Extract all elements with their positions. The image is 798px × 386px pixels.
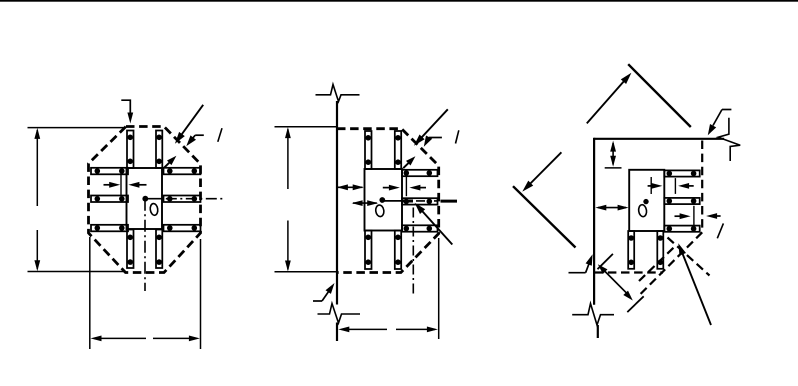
fig3 center point — [643, 199, 648, 204]
fig2 height dimension top extension line — [275, 126, 337, 128]
fig2 bent leader to wall base with arrow — [313, 300, 322, 302]
fig2 top-left vertical slot — [365, 131, 372, 169]
fig3 right-middle horizontal slot — [664, 198, 699, 204]
fig2 width dimension right extension line — [438, 238, 440, 339]
fig3 slot-edge extension line — [674, 178, 676, 194]
fig3 letter O anchor label — [638, 204, 647, 217]
fig1 bent leader with arrow to octagon edge — [195, 134, 204, 136]
fig1 right-middle horizontal slot — [164, 196, 201, 203]
fig3 arrow pointing at upper diagonal wall — [587, 78, 627, 123]
fig3 bent leader at wall end with arrow — [722, 109, 731, 111]
fig3 diagonal double arrow — [602, 268, 630, 296]
fig2 width dimension line left segment with left arrow — [342, 328, 388, 330]
fig1 bent leader to top edge with down arrow — [121, 100, 130, 116]
fig1 letter O anchor label — [150, 203, 159, 216]
fig3 arrow pointing at lower diagonal wall — [527, 152, 561, 186]
fig3 diagonal wall edge upper — [628, 64, 691, 127]
fig2 right-middle horizontal slot — [402, 198, 438, 204]
fig2 horizontal centerline — [382, 200, 402, 202]
fig2 horizontal centerline heavy end dash — [441, 200, 458, 203]
fig1 height dimension line upper segment with up arrow — [36, 130, 38, 206]
fig3 diagonal dimension tick near wall — [598, 254, 613, 269]
fig2 vertical centerline — [412, 208, 414, 294]
fig1 height dimension bottom extension line — [28, 271, 125, 273]
fig2 bottom-right vertical slot — [395, 231, 401, 270]
fig2 wall line lower part — [336, 323, 338, 342]
fig1 bottom-left vertical slot — [127, 230, 134, 269]
fig3 dashed diagonal through slot corner — [668, 238, 710, 276]
fig1 right-top horizontal slot — [164, 168, 201, 175]
fig1 height dimension top extension line — [28, 127, 125, 129]
fig3 inner tick line — [650, 177, 652, 194]
fig1 vertical centerline — [144, 199, 146, 291]
fig1 height dimension line lower segment with down arrow — [36, 230, 38, 269]
fig2 long diagonal leader to octagon corner edge — [419, 109, 448, 140]
fig3 horizontal dimension double arrow — [598, 207, 626, 209]
fig1 gap arrow pointing left — [135, 184, 147, 186]
fig3 left wall line upper part — [593, 138, 595, 305]
fig3 dashed diagonal below pattern — [639, 245, 676, 281]
fig1 slash callout mark — [218, 128, 222, 142]
fig1 horizontal centerline — [145, 198, 162, 200]
fig2 bent leader with arrow to octagon edge — [429, 137, 442, 139]
fig1 width dimension line left segment with left arrow — [94, 337, 146, 339]
fig3 diagonal dimension tick lower — [627, 296, 643, 312]
fig3 vertical dimension extension line — [605, 167, 622, 169]
page top border line — [0, 0, 798, 2]
fig3 outer thin line — [693, 206, 695, 226]
fig2 wall line upper part — [336, 101, 338, 305]
fig2 partial octagon dashed outline — [336, 129, 439, 273]
fig2 letter O anchor label — [375, 204, 385, 217]
fig3 bottom-right vertical slot — [657, 231, 663, 269]
fig1 slot-edge extension line — [120, 175, 122, 196]
fig2 right-bottom horizontal slot — [402, 225, 438, 231]
fig3 dashed outline bottom edge — [595, 271, 663, 273]
fig3 diagonal wall edge lower — [513, 186, 576, 247]
fig1 top-right vertical slot — [156, 131, 162, 169]
fig1 left-bottom horizontal slot — [91, 225, 128, 232]
fig3 left wall bottom break symbol — [572, 304, 614, 326]
fig2 width dimension line right segment with right arrow — [396, 328, 435, 330]
fig2 leader from lower right to middle slot — [418, 206, 453, 245]
fig2 slash callout mark — [456, 130, 459, 143]
fig3 central rectangle — [629, 170, 664, 231]
fig2 height dimension line upper segment with up arrow — [287, 129, 289, 189]
fig2 top-right vertical slot — [395, 131, 401, 169]
fig1 central rectangle — [127, 168, 163, 229]
fig2 bottom-left vertical slot — [365, 231, 372, 270]
fig1 bottom-right vertical slot — [156, 230, 162, 269]
fig1 long diagonal leader to octagon corner edge — [179, 105, 203, 138]
fig3 outer gap arrow pointing left — [713, 215, 721, 217]
fig1 center point — [142, 196, 148, 202]
fig3 right-top horizontal slot — [664, 170, 699, 176]
fig3 bent leader to wall base with arrow — [569, 272, 586, 274]
fig2 center point — [379, 197, 385, 203]
fig1 left-middle horizontal slot — [91, 196, 128, 203]
fig3 vertical dimension double arrow — [612, 143, 614, 165]
fig2 gap arrow pointing right — [383, 187, 394, 189]
fig3 dashed outline corner diagonal — [640, 232, 702, 294]
fig2 gap arrow pointing left — [416, 187, 426, 189]
fig3 long leader from lower right with arrow — [681, 250, 711, 325]
fig3 top wall end vertical break symbol — [718, 118, 740, 161]
fig2 wall top break symbol — [316, 85, 360, 102]
fig2 arrow pointing up-right at octagon edge — [403, 160, 411, 168]
fig1 width dimension left extension line — [89, 237, 91, 349]
fig1 arrow pointing up-right at octagon edge — [164, 160, 172, 168]
fig2 right-top horizontal slot — [402, 170, 438, 176]
fig2 slot-edge extension line — [405, 176, 407, 196]
fig1 octagon dashed outline — [89, 127, 201, 273]
fig3 right-bottom horizontal slot — [664, 226, 699, 232]
fig3 rect-gap arrow pointing right — [648, 185, 656, 187]
fig2 height dimension bottom extension line — [275, 271, 337, 273]
fig1 right-bottom horizontal slot — [164, 225, 201, 232]
fig2 wall-to-rectangle double arrow — [338, 186, 363, 188]
fig2 height dimension line lower segment with down arrow — [287, 221, 289, 270]
fig3 gap arrow pointing left — [685, 185, 694, 187]
fig3 outer gap arrow pointing right — [675, 215, 685, 217]
fig3 left wall line lower part — [597, 325, 599, 338]
fig2 double arrow straddling rectangle edge — [353, 202, 377, 204]
fig1 width dimension line right segment with right arrow — [153, 337, 197, 339]
fig2 central rectangle — [365, 169, 403, 231]
fig3 slash callout mark — [717, 223, 723, 238]
fig3 dashed outline right edge — [701, 141, 703, 233]
fig1 gap arrow pointing right — [104, 184, 114, 186]
fig1 top-left vertical slot — [127, 131, 134, 169]
fig3 bottom-left vertical slot — [628, 231, 634, 269]
fig3 top wall line — [594, 138, 724, 140]
fig2 wall bottom break symbol — [318, 304, 361, 324]
fig1 width dimension right extension line — [200, 239, 202, 349]
fig1 left-top horizontal slot — [91, 168, 128, 175]
